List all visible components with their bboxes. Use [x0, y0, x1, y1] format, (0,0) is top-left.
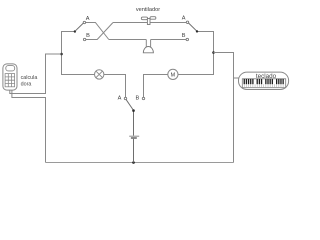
- wire: lower wire from crossover to hanging lamp: [109, 39, 147, 41]
- switch S2 common dot: [196, 30, 198, 32]
- calculator icon body: [3, 64, 17, 90]
- wire: bottom rail: [46, 162, 234, 164]
- battery cell B1: short thick plate: [131, 137, 137, 139]
- calculator key grid: [5, 74, 15, 87]
- switch S1 terminal B: [83, 38, 85, 40]
- keyboard icon body (teclado): [239, 72, 289, 89]
- battery cell B1: long plate: [129, 135, 139, 137]
- junction dot bottom rail / battery: [132, 161, 135, 164]
- lamp L1 (circle with X): [95, 70, 104, 79]
- node L junction dot: [60, 53, 63, 56]
- wire: left switch terminal B out, diagonal up of crossover: [86, 23, 113, 40]
- wire: calculator branch lower (calculator lead 2 down to bottom rail): [12, 90, 46, 163]
- wire: centre-switch terminal B drop up to motor wire: [144, 75, 168, 98]
- svg-text:A: A: [86, 16, 90, 22]
- switch S1 terminal A: [83, 21, 85, 23]
- wire: top wire from crossover to right switch terminal A: [113, 22, 186, 24]
- svg-text:A: A: [182, 16, 186, 22]
- hanging lamp leads: [146, 40, 150, 48]
- hanging lamp shade: [143, 47, 153, 53]
- svg-text:B: B: [182, 33, 186, 39]
- fan (ventilador) blades: [141, 17, 147, 20]
- svg-text:B: B: [86, 33, 90, 39]
- svg-text:dora: dora: [21, 82, 32, 88]
- motor M1 (circle with M): [168, 69, 178, 79]
- svg-text:B: B: [136, 95, 140, 101]
- svg-text:calcula: calcula: [21, 75, 38, 81]
- switch S3 (centre two-way): terminal A: [124, 97, 126, 99]
- svg-text:A: A: [118, 95, 122, 101]
- wire: battery vertical (common of centre switch to bottom rail): [133, 111, 135, 136]
- switch S1 lever: [75, 23, 84, 31]
- switch S2 (right two-way): terminal A: [186, 21, 188, 23]
- wire: lower wire from hanging lamp to right switch terminal B: [151, 39, 187, 41]
- wire: calculator branch upper (node L to calculator bottom lead 1): [10, 54, 62, 94]
- svg-text:ventilador: ventilador: [136, 7, 160, 13]
- wire: left rail from left switch common down to middle wire: [62, 32, 95, 75]
- switch S1 (left two-way): common dot: [74, 30, 76, 32]
- switch S2 lever: [188, 23, 197, 31]
- wire: keyboard stub: [234, 77, 239, 79]
- node R junction dot on right rail: [212, 51, 215, 54]
- wire: keyboard branch (node R right, down left side of keyboard to bottom rail): [214, 53, 234, 163]
- switch S2 terminal B: [186, 38, 188, 40]
- calculator screen: [6, 66, 15, 71]
- fan mount post: [147, 19, 150, 25]
- switch S3 common dot: [132, 109, 135, 112]
- keyboard keys: [242, 79, 285, 88]
- svg-text:M: M: [171, 73, 176, 79]
- switch S3 lever: [126, 99, 134, 110]
- wire: motor to right rail, up to right switch common: [178, 32, 214, 75]
- wire: middle wire, lamp to centre-switch terminal A drop: [104, 75, 126, 98]
- wire: left switch terminal A out, diagonal down of crossover: [86, 23, 109, 40]
- switch S3 terminal B: [142, 97, 144, 99]
